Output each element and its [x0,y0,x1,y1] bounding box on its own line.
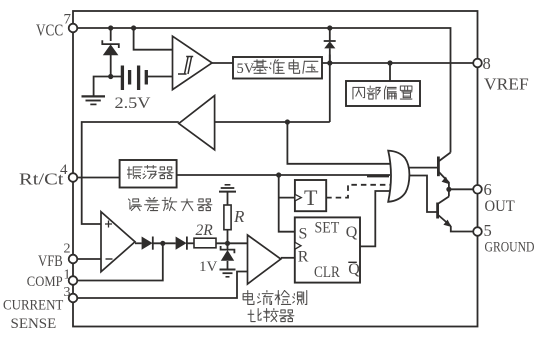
svg-text:R: R [233,207,245,226]
zener diode VCC clamp [102,40,119,48]
pin 2 VFB [69,255,78,264]
pin 4 Rt/Ct [69,173,78,182]
PWM latch block [295,217,360,282]
svg-text:OUT: OUT [485,198,515,215]
pin 8 junction dots [327,25,332,30]
op-amp error amplifier [101,212,135,272]
diode D2 [176,237,187,250]
ground (1V zener) [220,269,236,271]
wire pin 2 VFB to error amp - input [73,258,101,260]
block internal bias [346,81,420,106]
wire VCC rail from pin7 to upper transistor collector [73,28,451,153]
wire R resistor top to VREF rail symbol [227,192,229,206]
wire pin 1 COMP up to diode junction [73,243,163,280]
node emitter junction dot [446,187,451,192]
wire OR gate output to lower transistor base [405,176,438,213]
svg-text:R: R [298,249,309,266]
wire oscillator output to OR gate [177,174,391,176]
wire comparator output to latch R input [281,257,295,259]
wire buffer output to error amp + input [82,122,179,224]
wire emitter node to pin 6 OUT [449,188,473,190]
wire VREF down to buffer input node [329,63,331,122]
pin 3 CURRENT SENSE [69,294,78,303]
node VCC rail dots [108,25,113,30]
diode D1 after error amp [142,237,153,250]
svg-text:4: 4 [60,162,68,178]
svg-text:SET: SET [315,220,340,237]
label current sense comparator [243,291,254,305]
battery 2.5V [121,66,124,91]
svg-text:2.5V: 2.5V [115,95,151,112]
svg-text:6: 6 [484,180,492,199]
wire buffer input from VREF node [215,121,330,123]
svg-text:2R: 2R [196,222,214,239]
svg-text:Rt/Ct: Rt/Ct [19,170,64,189]
wire error amp output chain [135,242,142,244]
svg-text:S: S [299,225,308,242]
wire R resistor bottom to node [227,230,229,244]
wire zener branch from VCC rail [110,28,112,41]
wire pin 4 to oscillator [73,177,120,179]
svg-text:Q: Q [348,261,360,278]
label error amplifier [128,199,141,211]
OR gate [388,151,409,202]
transistor Q2 lower (NPN) [448,189,450,196]
svg-text:VCC: VCC [36,21,63,40]
wire node to OR gate input 1 [287,122,390,164]
svg-text:7: 7 [64,12,72,28]
block oscillator [120,160,177,188]
wire 1V zener leads [227,243,229,250]
ground (battery) [82,95,106,97]
op-amp buffer (points left) [179,96,215,150]
diode VREF clamp [324,40,336,42]
wire battery to UVLO comparator lower input [147,76,173,78]
wire UVLO comparator output to 5V reference block [212,62,233,64]
block 5V reference voltage [233,57,322,79]
svg-text:GROUND: GROUND [485,240,535,256]
wire battery node to ground [94,77,122,96]
pin 5 GROUND [473,227,482,236]
op-amp current sense comparator [248,235,281,284]
node R/zener junction dot [225,241,230,246]
svg-text:CLR: CLR [314,264,340,281]
dashed wire T flip-flop output to OR gate [326,185,390,198]
wire lower emitter to pin 5 GROUND [451,226,473,232]
svg-text:8: 8 [483,54,491,73]
VREF rail symbol (inverted ground) above R [225,184,231,186]
svg-text:5V: 5V [237,61,255,77]
wire pin 3 CURRENT SENSE to comparator - input [73,272,248,299]
svg-text:1: 1 [64,268,71,283]
svg-text:SENSE: SENSE [11,316,57,332]
pin 6 OUT [473,185,482,194]
T flip-flop block [295,180,326,211]
svg-text:1V: 1V [199,259,218,275]
pin 7 VCC [69,24,78,33]
wire VCC rail branch to UVLO comparator upper input [134,28,173,50]
node diode junction dot (COMP) [160,241,165,246]
wire oscillator line down to T flip-flop and latch S input [279,175,295,232]
wire OR gate output to upper transistor base [403,167,438,169]
wire internal bias stub [389,63,391,81]
wire latch Q output to OR gate [360,191,390,246]
resistor R (vertical) [224,205,231,230]
node oscillator line dot [276,172,281,177]
svg-text:Q: Q [346,224,358,241]
pin 8 VREF [473,59,482,68]
svg-text:T: T [304,185,318,210]
svg-text:5: 5 [484,221,492,240]
svg-text:VREF: VREF [484,75,529,94]
svg-text:CURRENT: CURRENT [3,298,63,314]
wire VREF line from 5V block to pin 8 [322,62,473,64]
svg-text:VFB: VFB [38,253,63,270]
node buffer input dot [285,119,290,124]
op-amp UVLO comparator with hysteresis [173,36,213,89]
wire VREF clamp diode branch [329,28,331,41]
pin 1 COMP [69,276,78,285]
IC outer boundary box [73,11,478,327]
zener diode 1V [221,246,235,253]
resistor 2R (horizontal) [194,238,216,248]
svg-text:2: 2 [64,242,71,257]
svg-text:3: 3 [64,285,71,300]
transistor Q1 upper (NPN) [437,157,440,177]
svg-text:COMP: COMP [27,274,63,290]
